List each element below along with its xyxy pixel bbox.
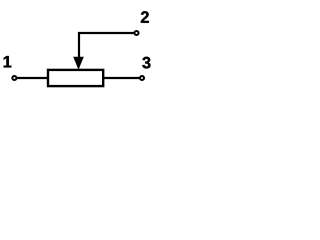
terminal 3 pad: [140, 76, 144, 80]
terminal 1 pad: [12, 76, 16, 80]
terminal 2 pad: [134, 31, 138, 35]
wiper arrow: [73, 57, 84, 70]
wire: [79, 33, 134, 58]
pin label 3: [142, 57, 150, 69]
wire: [104, 77, 141, 79]
pin label 1: [4, 56, 12, 67]
potentiometer body R1: [48, 70, 103, 86]
wire: [16, 77, 47, 79]
pin label 2: [141, 11, 149, 23]
